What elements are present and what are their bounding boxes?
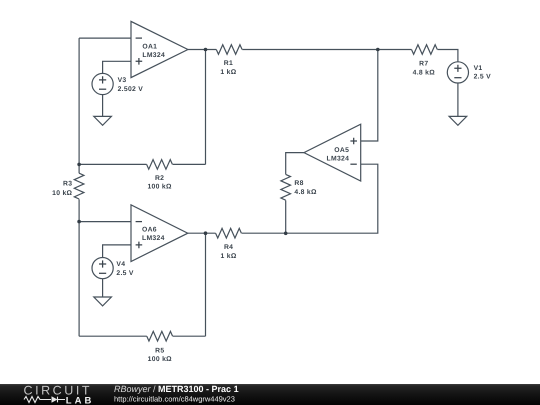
wire OA1 non-inverting input bbox=[103, 61, 131, 73]
resistor R4 bbox=[216, 228, 242, 260]
resistor R3 bbox=[52, 173, 84, 199]
wire OA6 non-inverting input bbox=[103, 245, 131, 258]
svg-text:1 kΩ: 1 kΩ bbox=[221, 253, 237, 260]
svg-text:LM324: LM324 bbox=[327, 155, 350, 162]
ground below V4 bbox=[94, 297, 112, 306]
svg-text:R1: R1 bbox=[224, 60, 233, 67]
op-amp OA1 bbox=[131, 21, 188, 77]
svg-text:10 kΩ: 10 kΩ bbox=[52, 190, 72, 197]
svg-text:LM324: LM324 bbox=[142, 235, 165, 242]
wire OA6 output rail down to R5 bbox=[205, 233, 207, 336]
wire R5 to output rail bbox=[173, 335, 206, 337]
svg-text:RBowyer / METR3100 - Prac 1: RBowyer / METR3100 - Prac 1 bbox=[114, 384, 239, 394]
svg-text:R4: R4 bbox=[224, 244, 233, 251]
svg-text:R5: R5 bbox=[155, 347, 164, 354]
svg-text:LM324: LM324 bbox=[142, 52, 165, 59]
voltage source V3 bbox=[92, 73, 143, 94]
resistor R5 bbox=[147, 331, 173, 363]
svg-text:2.5 V: 2.5 V bbox=[116, 270, 134, 277]
node OA6 output junction bbox=[204, 231, 208, 235]
node left rail OA6 input junction bbox=[77, 220, 81, 224]
svg-text:1 kΩ: 1 kΩ bbox=[220, 69, 236, 76]
voltage source V1 bbox=[447, 62, 491, 83]
svg-text:4.8 kΩ: 4.8 kΩ bbox=[413, 70, 436, 77]
footer bar bbox=[0, 384, 540, 405]
resistor R2 bbox=[147, 160, 173, 191]
wire V1 to ground bbox=[457, 83, 459, 116]
wire left feedback rail upper bbox=[78, 38, 80, 173]
node R8-R4 junction bbox=[284, 232, 288, 236]
svg-text:LAB: LAB bbox=[66, 395, 95, 405]
resistor R1 bbox=[216, 45, 242, 77]
wire R4 to OA5 inverting input bbox=[242, 164, 378, 233]
svg-text:R7: R7 bbox=[419, 61, 428, 68]
node A R1-R7-OA5 junction bbox=[376, 48, 380, 52]
svg-text:R8: R8 bbox=[294, 180, 303, 187]
svg-text:http://circuitlab.com/c84wgrw4: http://circuitlab.com/c84wgrw449v23 bbox=[114, 394, 235, 403]
op-amp OA5 bbox=[304, 124, 361, 181]
svg-text:100 kΩ: 100 kΩ bbox=[148, 356, 173, 363]
svg-text:V4: V4 bbox=[116, 261, 125, 268]
wire R8 to R4 node bbox=[285, 200, 287, 233]
svg-text:2.5 V: 2.5 V bbox=[474, 74, 492, 81]
wire OA5 output to R8 bbox=[286, 153, 304, 175]
ground below V3 bbox=[94, 116, 112, 125]
node OA1 output junction bbox=[204, 48, 208, 52]
voltage source V4 bbox=[92, 258, 134, 279]
wire OA6 output bbox=[188, 232, 216, 234]
svg-text:R2: R2 bbox=[155, 175, 164, 182]
op-amp OA6 bbox=[131, 205, 188, 262]
wire OA5 non-inverting input up to node A bbox=[361, 50, 378, 142]
wire bottom left to R5 bbox=[79, 335, 147, 337]
wire V4 to ground bbox=[102, 279, 104, 297]
resistor R7 bbox=[412, 45, 438, 77]
svg-text:2.502 V: 2.502 V bbox=[118, 86, 144, 93]
svg-text:100 kΩ: 100 kΩ bbox=[147, 184, 172, 191]
ground below V1 bbox=[449, 116, 467, 125]
wire R1 to node A bbox=[242, 49, 411, 51]
wire R7 to V1 bbox=[438, 50, 458, 62]
svg-text:V1: V1 bbox=[474, 65, 483, 72]
svg-text:R3: R3 bbox=[63, 181, 72, 188]
wire R2 left bbox=[79, 163, 147, 165]
wire R2 right bbox=[173, 163, 206, 165]
svg-text:4.8 kΩ: 4.8 kΩ bbox=[294, 189, 317, 196]
svg-text:OA1: OA1 bbox=[142, 44, 157, 51]
node left rail R2-R3 junction bbox=[77, 163, 81, 167]
svg-text:OA5: OA5 bbox=[334, 147, 349, 154]
CircuitLab logo resistor-diode art bbox=[24, 397, 65, 403]
resistor R8 bbox=[281, 174, 317, 200]
wire OA1 output bbox=[188, 49, 216, 51]
wire OA1 output rail down to R2 bbox=[205, 50, 207, 165]
svg-text:OA6: OA6 bbox=[142, 227, 157, 234]
wire V3 to ground bbox=[102, 95, 104, 117]
wire left feedback rail lower bbox=[78, 199, 80, 336]
svg-text:V3: V3 bbox=[118, 77, 127, 84]
wire OA1 inverting input bbox=[79, 37, 131, 39]
wire OA6 inverting input bbox=[79, 221, 131, 223]
